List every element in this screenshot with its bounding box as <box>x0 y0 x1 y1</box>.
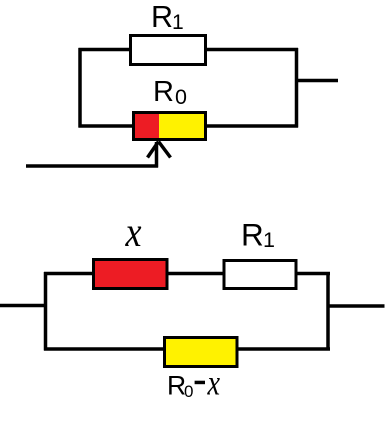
wire: bottom branch left segment to yellow resistor <box>44 347 166 351</box>
wire: right vertical of top loop <box>295 48 299 128</box>
label R0 (potentiometer) <box>153 76 187 109</box>
potentiometer R0 outline <box>134 113 206 140</box>
wire: right vertical of bottom loop <box>326 272 330 351</box>
wire: from R1 right side to right vertical <box>205 48 298 52</box>
label R0−x (yellow resistor value) <box>167 363 220 403</box>
wire: left vertical of bottom loop <box>44 272 48 351</box>
svg-text:R: R <box>241 217 264 253</box>
resistor R1 (bottom) <box>224 261 296 289</box>
svg-text:R: R <box>153 76 174 108</box>
wire: right terminal stub of bottom circuit <box>328 304 385 308</box>
svg-text:0: 0 <box>184 382 193 401</box>
svg-text:1: 1 <box>263 228 275 252</box>
wire: bottom-left horizontal to R0 <box>79 124 136 128</box>
resistor x (red) <box>94 260 168 289</box>
wire: left vertical of top loop <box>78 48 82 128</box>
wire: right terminal stub of top circuit <box>297 79 339 83</box>
wire: left terminal stub of bottom circuit <box>0 304 47 308</box>
label R1 (bottom resistor) <box>241 217 275 253</box>
label R1 (top resistor) <box>151 0 184 34</box>
wiper arrow of potentiometer R0 <box>148 142 171 168</box>
wire: top branch middle segment between x and R1 <box>167 272 224 276</box>
wire: wiper terminal horizontal <box>26 164 158 168</box>
potentiometer R0 body: red segment (x portion) <box>134 113 160 140</box>
svg-text:R: R <box>151 0 173 34</box>
wire: top branch right segment to right vertical <box>296 272 330 276</box>
svg-text:1: 1 <box>172 11 184 34</box>
resistor R1 (top) <box>131 36 206 65</box>
wire: top branch left segment to red resistor <box>44 272 95 276</box>
wire: from R0 right side to right vertical <box>205 124 298 128</box>
potentiometer R0 body: yellow segment (R0−x portion) <box>159 113 206 140</box>
resistor R0−x (yellow) <box>165 338 238 367</box>
wire: top-left horizontal to R1 <box>79 48 132 52</box>
wire: bottom branch right segment to right vertical <box>236 347 330 351</box>
svg-text:x: x <box>125 210 142 256</box>
svg-text:x: x <box>207 363 220 403</box>
svg-text:0: 0 <box>175 85 187 109</box>
